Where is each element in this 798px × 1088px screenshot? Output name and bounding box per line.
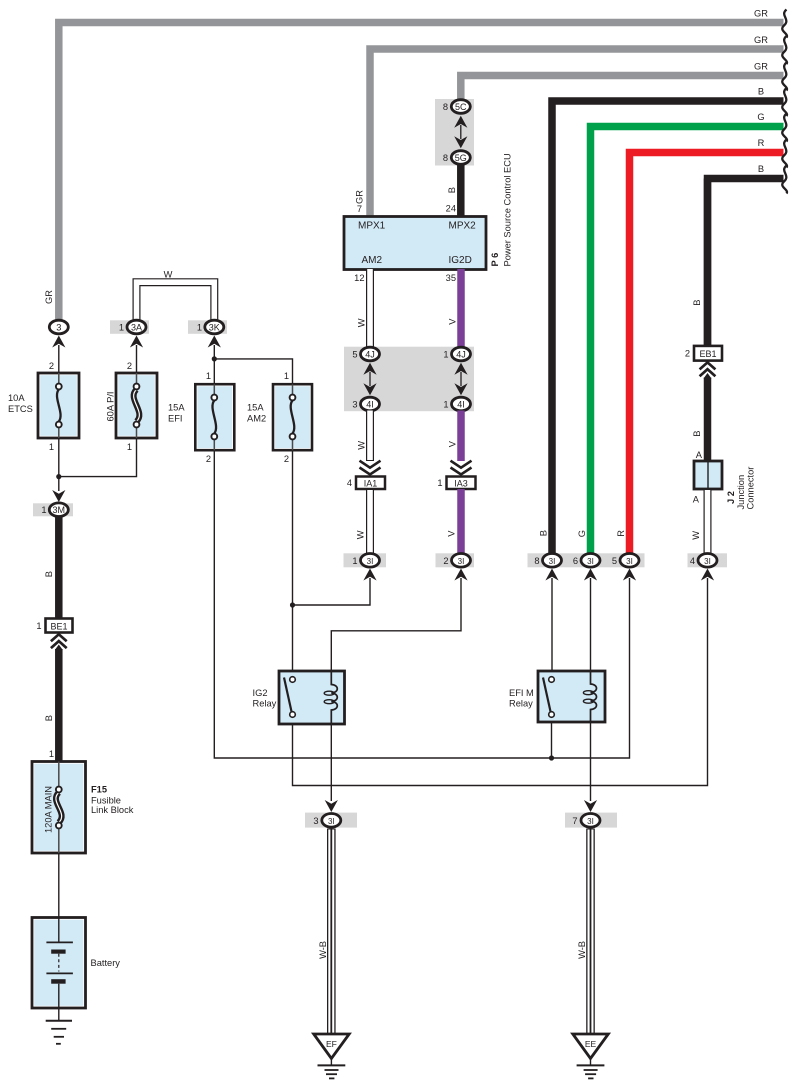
svg-text:3I: 3I — [587, 557, 594, 566]
wire B 3M to BE1 — [55, 517, 63, 619]
svg-text:W: W — [356, 530, 366, 539]
svg-text:B: B — [44, 571, 54, 577]
svg-text:60A P/I: 60A P/I — [106, 392, 116, 422]
svg-text:B: B — [758, 87, 764, 97]
wire break squiggle 3 — [782, 63, 787, 91]
svg-text:4: 4 — [347, 478, 352, 488]
svg-text:W: W — [357, 441, 367, 450]
svg-text:GR: GR — [44, 290, 54, 304]
svg-text:1: 1 — [206, 371, 211, 381]
svg-text:Relay: Relay — [509, 699, 533, 709]
arrow into connector 3K — [208, 336, 221, 348]
wire B horizontal 1 — [552, 101, 784, 556]
connector IA3 — [447, 477, 476, 490]
connector 5C 5G band — [435, 99, 474, 166]
ground EF — [314, 1034, 350, 1078]
wire IG2 switch out down and right to 4(3I) riser — [293, 578, 708, 786]
svg-text:2: 2 — [685, 349, 690, 359]
svg-text:3I: 3I — [328, 817, 335, 826]
connector 4J right oval — [452, 347, 471, 361]
arrow into connector 3M — [52, 490, 65, 502]
connector 8 6 5 (3I) band — [528, 553, 645, 567]
svg-text:G: G — [757, 112, 764, 122]
svg-text:5G: 5G — [455, 153, 467, 163]
wire junction to 3M arrow — [58, 477, 60, 491]
wire 3K to junction and fuse 15A EFI — [213, 345, 215, 384]
svg-text:Relay: Relay — [253, 699, 277, 709]
svg-text:12: 12 — [354, 273, 364, 283]
svg-text:7: 7 — [572, 816, 577, 826]
wire 8(3I) to EFI M relay switch — [551, 578, 553, 671]
ground EE — [573, 1034, 609, 1078]
svg-text:V: V — [448, 318, 458, 325]
svg-text:W: W — [691, 531, 701, 540]
wire break squiggle 1 — [782, 10, 787, 38]
svg-text:1: 1 — [443, 400, 448, 410]
svg-text:5: 5 — [352, 350, 357, 360]
wire GR horizontal 2 — [370, 49, 784, 217]
arrows between 5C and 5G — [454, 116, 467, 128]
wire V 4I to IA3 — [457, 411, 465, 462]
svg-text:3I: 3I — [587, 817, 594, 826]
wire from 2(3I) to IG2 relay coil — [331, 578, 461, 671]
svg-text:6: 6 — [573, 556, 578, 566]
connector 3K oval — [205, 320, 224, 334]
svg-text:Power Source Control ECU: Power Source Control ECU — [503, 153, 513, 266]
connector 3M oval — [49, 503, 68, 517]
svg-text:A: A — [693, 495, 700, 505]
svg-text:EB1: EB1 — [699, 349, 716, 359]
svg-text:B: B — [44, 715, 54, 721]
wire F15 to battery — [58, 853, 60, 918]
connector 3 oval — [49, 320, 68, 334]
svg-text:3I: 3I — [704, 557, 711, 566]
svg-text:P 6: P 6 — [490, 253, 500, 267]
connector 3I oval 6 — [581, 554, 600, 568]
svg-text:3M: 3M — [53, 505, 66, 515]
svg-text:EFI: EFI — [168, 414, 182, 424]
junction dot below fuse 10A — [56, 474, 61, 479]
svg-text:AM2: AM2 — [247, 414, 266, 424]
svg-text:R: R — [758, 138, 765, 148]
wire B BE1 to F15 — [55, 645, 63, 651]
svg-text:1: 1 — [437, 478, 442, 488]
svg-text:Junction: Junction — [736, 475, 746, 510]
svg-text:1: 1 — [36, 621, 41, 631]
arrow into connector 3 — [52, 336, 65, 348]
wire B horizontal 2 — [708, 179, 784, 348]
svg-text:GR: GR — [754, 9, 768, 19]
relay IG2 — [279, 671, 345, 724]
wire W loop 3A to 3K outline — [137, 282, 215, 320]
svg-text:35: 35 — [446, 273, 456, 283]
wire IG2 coil out to 3(3I) — [330, 724, 332, 801]
svg-text:120A MAIN: 120A MAIN — [44, 786, 54, 833]
connector 5C oval — [451, 100, 470, 114]
wire V ECU pin 35 to 4J — [457, 269, 465, 348]
fuse 15A AM2 — [273, 384, 312, 450]
svg-text:A: A — [696, 450, 703, 460]
connector 3A oval — [127, 320, 146, 334]
svg-text:3: 3 — [313, 816, 318, 826]
fusible link 60A P/I — [116, 373, 157, 438]
svg-text:V: V — [448, 440, 458, 447]
svg-text:IA1: IA1 — [364, 478, 378, 488]
svg-text:Battery: Battery — [91, 958, 121, 968]
svg-text:3K: 3K — [209, 323, 220, 333]
wire break squiggle 4 — [782, 88, 787, 116]
arrow into 4(3I) — [701, 569, 714, 581]
svg-text:8: 8 — [443, 153, 448, 163]
svg-text:4I: 4I — [366, 400, 374, 410]
svg-text:8: 8 — [443, 102, 448, 112]
svg-text:R: R — [616, 530, 626, 537]
svg-text:ETCS: ETCS — [8, 404, 33, 414]
connector EB1 — [694, 346, 722, 361]
connector 3A band — [110, 320, 149, 334]
svg-text:2: 2 — [127, 361, 132, 371]
svg-text:4: 4 — [690, 556, 695, 566]
svg-text:2: 2 — [284, 454, 289, 464]
svg-text:Connector: Connector — [746, 467, 756, 510]
arrow into 1(3I) — [363, 569, 376, 581]
svg-text:1: 1 — [284, 371, 289, 381]
svg-text:EF: EF — [326, 1039, 337, 1049]
wire W loop white fill — [137, 282, 215, 320]
svg-text:4J: 4J — [456, 350, 466, 360]
svg-text:1: 1 — [443, 350, 448, 360]
connector 3M band — [33, 503, 73, 516]
chevron connector below EB1 — [700, 362, 716, 376]
wire 6(3I) to EFI M relay coil — [590, 578, 592, 671]
wire GR horizontal 3 — [461, 76, 784, 102]
ECU box P 6 — [344, 217, 486, 270]
svg-text:B: B — [447, 187, 457, 193]
wire GR horizontal 1 (top) — [59, 23, 784, 320]
svg-text:IA3: IA3 — [454, 478, 468, 488]
wire break squiggle 5 — [782, 114, 787, 142]
svg-text:1: 1 — [41, 505, 46, 515]
connector 4J left oval — [361, 347, 380, 361]
wire fuse 10A to junction — [58, 438, 60, 477]
svg-text:4I: 4I — [457, 400, 465, 410]
svg-text:GR: GR — [754, 62, 768, 72]
wire junction to fuse 15A AM2 — [214, 359, 292, 384]
svg-text:BE1: BE1 — [50, 621, 67, 631]
wire W ECU pin 12 to 4J — [366, 269, 374, 348]
svg-text:W-B: W-B — [577, 941, 587, 959]
svg-text:IG2D: IG2D — [449, 255, 472, 266]
wire break squiggle 7 — [782, 166, 787, 194]
connector 3I oval 2 — [452, 554, 471, 568]
svg-text:3I: 3I — [626, 557, 633, 566]
svg-text:5: 5 — [612, 556, 617, 566]
svg-text:Fusible: Fusible — [91, 796, 121, 806]
wire battery to ground — [58, 1008, 60, 1021]
svg-text:MPX1: MPX1 — [358, 221, 386, 232]
svg-text:3I: 3I — [549, 557, 556, 566]
svg-text:1: 1 — [119, 323, 124, 333]
junction dot on AM2 wire — [290, 602, 295, 607]
svg-text:5C: 5C — [455, 102, 467, 112]
svg-text:8: 8 — [534, 556, 539, 566]
svg-text:3I: 3I — [458, 557, 465, 566]
svg-text:1: 1 — [197, 323, 202, 333]
svg-text:15A: 15A — [247, 403, 264, 413]
svg-text:15A: 15A — [168, 403, 185, 413]
connector 3I oval 4 — [698, 554, 717, 568]
connector 3I oval 5 — [620, 554, 639, 568]
arrow into 3(3I) — [325, 800, 338, 812]
svg-text:2: 2 — [49, 361, 54, 371]
chevron connector above IA3 — [451, 461, 472, 475]
svg-text:Link Block: Link Block — [91, 805, 134, 815]
svg-text:EFI M: EFI M — [509, 688, 534, 698]
arrow into 7(3I) — [584, 800, 597, 812]
wire EFI M coil out to 7(3I) — [590, 722, 592, 801]
wire EFI M switch out to horizontal — [551, 722, 553, 758]
wire from 1(3I) to junction — [293, 578, 371, 605]
svg-text:W-B: W-B — [318, 941, 328, 959]
connector BE1 — [46, 619, 73, 633]
svg-text:W: W — [164, 270, 173, 280]
svg-text:EE: EE — [585, 1039, 597, 1049]
junction dot EFI M switch out — [549, 755, 554, 760]
svg-text:B: B — [758, 164, 764, 174]
connector 3K band — [188, 320, 227, 334]
connector 4I right oval — [452, 397, 471, 411]
svg-text:1: 1 — [49, 749, 54, 759]
connector 1(3I) band — [344, 553, 387, 567]
wire R horizontal — [630, 153, 784, 557]
svg-text:AM2: AM2 — [362, 255, 383, 266]
connector 7(3I) band — [565, 813, 617, 828]
svg-text:F15: F15 — [91, 785, 107, 795]
svg-text:2: 2 — [206, 454, 211, 464]
fusible link block F15 120A MAIN — [32, 762, 86, 854]
svg-text:24: 24 — [446, 204, 456, 214]
svg-text:GR: GR — [754, 35, 768, 45]
wire G horizontal — [591, 127, 784, 557]
junction dot below 3K — [212, 356, 217, 361]
connector 3I oval 1 — [361, 554, 380, 568]
svg-text:1: 1 — [352, 556, 357, 566]
svg-text:2: 2 — [443, 556, 448, 566]
svg-text:1: 1 — [127, 442, 132, 452]
svg-text:J 2: J 2 — [726, 491, 736, 504]
svg-text:7: 7 — [357, 204, 362, 214]
svg-text:3A: 3A — [131, 323, 142, 333]
wire break squiggle 2 — [782, 36, 787, 64]
wire W-B 3(3I) to EF — [327, 829, 336, 1035]
connector 3(3I) band — [305, 813, 357, 828]
svg-text:B: B — [692, 431, 702, 437]
relay EFI M — [538, 671, 605, 722]
wire 3A arrow to fuse 60A — [136, 345, 138, 373]
arrows between right 4J and 4I — [454, 363, 467, 375]
fuse 15A EFI — [195, 384, 234, 450]
svg-text:IG2: IG2 — [253, 688, 268, 698]
wire W IA1 to 1(3I) — [366, 489, 374, 557]
arrow into 6(3I) — [584, 569, 597, 581]
wire fuse 60A down to junction — [59, 438, 137, 477]
svg-text:3I: 3I — [367, 557, 374, 566]
svg-text:3: 3 — [352, 400, 357, 410]
svg-text:G: G — [577, 530, 587, 537]
svg-text:10A: 10A — [8, 393, 25, 403]
wire 15A AM2 pin 2 down to IG2 relay switch — [292, 450, 294, 671]
svg-text:B: B — [692, 300, 702, 306]
arrow into 8(3I) — [545, 569, 558, 581]
svg-text:V: V — [447, 530, 457, 537]
wire from arrow to fuse 10A ETCS — [58, 345, 60, 373]
svg-text:MPX2: MPX2 — [449, 221, 477, 232]
wire W J2 to 4(3I) — [704, 489, 712, 557]
svg-text:1: 1 — [49, 442, 54, 452]
svg-text:GR: GR — [355, 190, 365, 204]
battery — [32, 918, 86, 1009]
wire B to EB1 — [704, 179, 712, 348]
connector IA1 — [356, 477, 385, 490]
wire W-B 7(3I) to EE — [586, 829, 595, 1035]
fuse 10A ETCS — [38, 373, 79, 438]
connector 4I left oval — [361, 397, 380, 411]
junction connector J2 — [694, 461, 722, 489]
svg-text:W: W — [357, 318, 367, 327]
connector 4(3I) band — [688, 553, 728, 567]
chevron connector above IA1 — [360, 461, 381, 475]
wire W 4I to IA1 — [366, 411, 374, 462]
connector 2(3I) band — [436, 553, 475, 567]
chevron connector below BE1 — [51, 634, 67, 648]
connector 4J 4I band — [344, 347, 474, 412]
arrow into 5(3I) — [623, 569, 636, 581]
connector 5G oval — [451, 151, 470, 165]
wire 15A EFI pin 2 down right to 5(3I) riser — [214, 450, 629, 758]
arrow into connector 3A — [130, 336, 143, 348]
svg-text:B: B — [539, 530, 549, 536]
connector 3I oval 7 — [581, 814, 600, 828]
wire B EB1 to J2 — [704, 373, 712, 379]
wire B 5G to ECU pin 24 — [457, 165, 465, 218]
wire break squiggle 6 — [782, 140, 787, 168]
connector 3I oval 3 — [322, 814, 341, 828]
arrow into 2(3I) — [454, 569, 467, 581]
ground below battery — [46, 1021, 72, 1044]
connector 3I oval 8 — [543, 554, 562, 568]
svg-text:3: 3 — [56, 323, 61, 333]
wire V IA3 to 2(3I) — [457, 489, 465, 557]
arrows between left 4J and 4I — [363, 363, 376, 375]
svg-text:4J: 4J — [365, 350, 375, 360]
